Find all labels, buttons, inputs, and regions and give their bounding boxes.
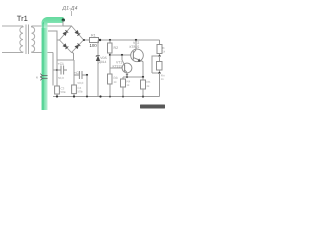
svg-text:1k: 1k <box>161 77 165 81</box>
wire (plus rail right corner down) <box>159 40 161 45</box>
resistor R1 <box>90 38 99 43</box>
capacitor C4 (box style) <box>72 85 77 97</box>
svg-text:КТ315: КТ315 <box>113 64 123 68</box>
wire (VT1 base wire) <box>110 67 122 69</box>
wire (x57 vertical lower / minus branch) <box>56 60 58 86</box>
wire (output branch to minus rail) <box>159 73 161 97</box>
wire (R1 to plus rail) <box>99 39 160 41</box>
node K <box>158 55 160 57</box>
wire (bottom AC detour to bridge bottom) <box>57 52 74 60</box>
resistor R6 (top right) <box>157 45 162 54</box>
capacitor C1 <box>57 66 67 75</box>
wire (VT1 emitter down) <box>126 73 128 77</box>
diode D4 (bottom-right edge) <box>75 45 79 49</box>
node H (VT1 emitter junction) <box>126 76 128 78</box>
node E (R2 top) <box>109 39 111 41</box>
transistor VT1 <box>122 63 132 73</box>
resistor R2 <box>109 40 111 43</box>
transistor VT2 <box>131 49 144 62</box>
wire (node F to VT2 base) <box>110 54 131 56</box>
wire (node G down to VT1 collector) <box>121 55 123 60</box>
svg-text:Д814: Д814 <box>99 60 107 64</box>
capacitor C2 (horizontal, near bottom) <box>74 71 87 79</box>
node A (junction green / bridge AC1) <box>62 18 65 21</box>
svg-text:50в: 50в <box>61 90 66 94</box>
node F (R2 bottom junction) <box>109 54 111 56</box>
wire (node F down to divider) <box>109 55 111 74</box>
wire (node A down to bridge top) <box>63 21 72 27</box>
connector X1 on green wire <box>40 74 47 81</box>
diode D2 (top-right edge) <box>75 30 79 34</box>
svg-text:R1: R1 <box>91 34 96 38</box>
svg-text:100: 100 <box>90 43 98 48</box>
svg-text:50,0: 50,0 <box>78 81 84 85</box>
svg-text:50в: 50в <box>78 90 83 94</box>
node D (R1 right junction) <box>99 39 101 41</box>
wire (VT2 collector) <box>135 40 137 49</box>
svg-text:R2: R2 <box>114 46 119 50</box>
node C <box>86 74 88 76</box>
node J (output node) <box>142 76 144 78</box>
diode D3 (bottom-left edge) <box>63 44 67 48</box>
zener diode VD5 <box>97 41 99 97</box>
svg-text:+C1: +C1 <box>58 62 64 66</box>
wire (node C to minus rail) <box>86 75 88 97</box>
resistor R3 <box>108 74 113 84</box>
svg-text:б: б <box>36 76 38 80</box>
svg-text:2k: 2k <box>147 84 151 88</box>
wire (label leader) <box>71 11 73 16</box>
resistor R5 (load on x143) <box>142 77 144 80</box>
wire (emitter rail y77) <box>123 76 143 78</box>
svg-text:1k: 1k <box>162 50 165 54</box>
resistor R4 (lower, on x123) <box>122 77 124 79</box>
node L <box>158 72 160 74</box>
svg-text:1k: 1k <box>127 83 131 87</box>
wire (bridge + output to R1) <box>84 39 90 41</box>
node G (VT1 collector tap) <box>121 54 123 56</box>
svg-text:50,0: 50,0 <box>58 76 64 80</box>
resistor R7 (right output branch) <box>159 56 161 62</box>
svg-text:VD5: VD5 <box>100 56 107 60</box>
diode D1 (top-left edge) <box>63 32 67 36</box>
junction dots on minus rail <box>56 95 58 97</box>
svg-text:1k: 1k <box>114 80 118 84</box>
node I (VT2 collector on plus rail) <box>135 39 137 41</box>
diode bridge VD1-VD4 (diamond) <box>60 26 84 53</box>
wire (bridge left vertex stub) <box>57 39 60 41</box>
capacitor C2 (box style) lower left <box>55 86 60 97</box>
node B (C1 node) <box>56 69 58 71</box>
caption bar (bottom right) <box>140 105 165 109</box>
svg-text:Д1-Д4: Д1-Д4 <box>62 5 78 11</box>
wire (transformer bottom lead down to C1 node) <box>53 53 57 86</box>
wire (transformer top lead corner to AC2 detour) <box>48 31 57 60</box>
wire (VT2 emitter to output column) <box>142 62 144 77</box>
wire (bridge bottom branch down) <box>73 60 75 85</box>
wire (parallel section left leg) <box>152 56 160 73</box>
svg-text:+C2: +C2 <box>74 71 80 75</box>
svg-text:Tr1: Tr1 <box>17 14 28 23</box>
svg-text:КТ815: КТ815 <box>130 45 140 49</box>
wire (minus rail) <box>53 96 160 98</box>
transformer Tr1 <box>2 25 63 55</box>
